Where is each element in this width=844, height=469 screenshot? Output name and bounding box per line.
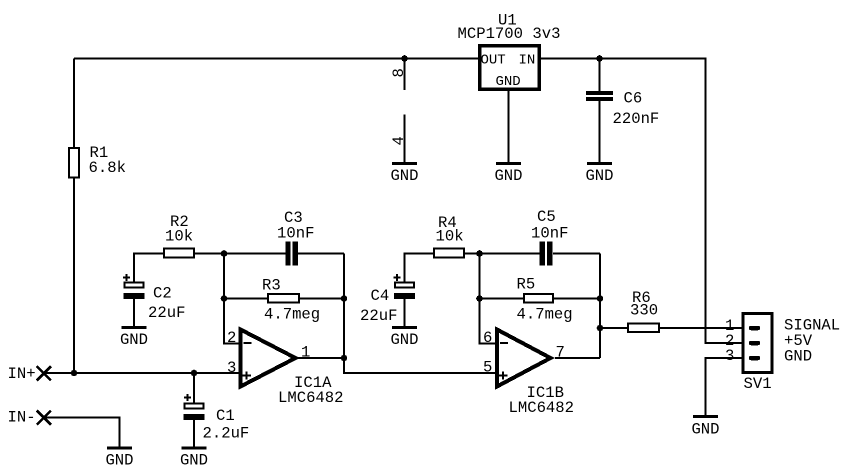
wire R2 right to C3 xyxy=(195,253,286,255)
wire C1 bottom lead to GND xyxy=(193,420,195,448)
svg-text:GND: GND xyxy=(784,348,812,366)
svg-text:MCP1700 3v3: MCP1700 3v3 xyxy=(458,25,561,43)
wire 3v3 rail top left (U1 OUT to left drop) xyxy=(74,58,478,60)
resistor R5 4.7meg xyxy=(517,276,573,324)
svg-text:10k: 10k xyxy=(436,228,464,246)
capacitor C1 2.2uF (polarized) xyxy=(184,394,250,443)
wire C4 bottom lead to GND xyxy=(404,299,406,328)
svg-text:220nF: 220nF xyxy=(613,110,660,128)
svg-text:LMC6482: LMC6482 xyxy=(509,399,575,417)
resistor R4 10k xyxy=(434,214,464,258)
svg-text:4: 4 xyxy=(390,136,408,145)
svg-text:4.7meg: 4.7meg xyxy=(517,306,573,324)
capacitor C6 220nF xyxy=(586,90,659,129)
wire IC1B output to column xyxy=(555,357,600,359)
capacitor C2 22uF (polarized) xyxy=(123,274,185,322)
connector SV1 xyxy=(725,314,772,394)
wire left drop R1 top xyxy=(73,59,75,148)
svg-text:8: 8 xyxy=(390,68,408,77)
ground under U1 pin4 xyxy=(390,164,418,186)
svg-text:GND: GND xyxy=(494,167,522,185)
wire IC1A output to node xyxy=(298,357,344,359)
wire R4 right to C5 xyxy=(465,253,540,255)
svg-text:C2: C2 xyxy=(153,285,172,303)
ground under C2 xyxy=(120,328,148,350)
svg-text:6: 6 xyxy=(483,329,492,347)
capacitor C3 10nF xyxy=(277,209,314,266)
svg-text:C1: C1 xyxy=(216,407,235,425)
resistor R6 330 xyxy=(628,289,659,332)
svg-text:C4: C4 xyxy=(371,287,390,305)
node R3 right junction xyxy=(341,295,348,302)
wire C3 right to feedback column xyxy=(298,253,344,255)
svg-text:IN-: IN- xyxy=(8,409,36,427)
svg-text:C6: C6 xyxy=(624,90,643,108)
svg-text:OUT: OUT xyxy=(481,53,506,69)
wire U1 GND pin stub xyxy=(508,91,510,164)
svg-text:GND: GND xyxy=(180,452,208,469)
wire R5 right xyxy=(554,298,600,300)
svg-text:10nF: 10nF xyxy=(531,225,568,243)
svg-text:LMC6482: LMC6482 xyxy=(278,389,344,407)
wire R6 right lead to SV1 pin1 xyxy=(660,327,742,329)
node R2/C3/col224 junction xyxy=(221,250,228,257)
svg-text:1: 1 xyxy=(301,344,310,362)
wire C2 bottom lead to GND xyxy=(133,299,135,328)
ground under U1 GND pin xyxy=(494,164,522,186)
wire feedback column x344 xyxy=(343,254,345,359)
wire U1 pin4 stub xyxy=(404,115,406,164)
ground under IN- xyxy=(105,448,133,469)
node IN+/C1 junction xyxy=(191,370,198,377)
node R4/C5/col479 junction xyxy=(476,250,483,257)
svg-text:2: 2 xyxy=(227,329,236,347)
wire IN- line to GND xyxy=(44,418,120,449)
ground under C6 xyxy=(585,164,613,186)
node R6/IC1B out junction xyxy=(597,325,604,332)
svg-text:2.2uF: 2.2uF xyxy=(203,425,250,443)
wire R3 right xyxy=(300,298,344,300)
node R5 right junction xyxy=(597,295,604,302)
wire R6 left lead xyxy=(600,327,627,329)
resistor R1 6.8k xyxy=(69,144,126,178)
wire SV1 pin3 to GND xyxy=(706,358,742,417)
wire R3 left xyxy=(224,298,267,300)
svg-text:330: 330 xyxy=(630,302,658,320)
capacitor C4 22uF (polarized) xyxy=(360,274,415,325)
svg-text:3: 3 xyxy=(227,359,236,377)
svg-text:GND: GND xyxy=(390,167,418,185)
svg-text:GND: GND xyxy=(691,421,719,439)
svg-text:GND: GND xyxy=(390,331,418,349)
wire IN+ line to IC1A pin3 xyxy=(44,372,241,374)
svg-text:6.8k: 6.8k xyxy=(89,159,126,177)
svg-text:R5: R5 xyxy=(517,276,536,294)
op-amp IC1B LMC6482 xyxy=(483,329,574,417)
op-amp IC1A LMC6482 xyxy=(227,329,344,407)
wire node column x224 to pin2 xyxy=(224,254,240,344)
wire C2 top lead and bend to R2 xyxy=(134,254,163,283)
op-amp U1 MCP1700 regulator box xyxy=(458,12,561,91)
svg-text:IN+: IN+ xyxy=(8,365,36,383)
node +5V/C6 junction xyxy=(596,55,603,62)
ground under SV1 pin3 xyxy=(691,417,719,439)
svg-text:GND: GND xyxy=(496,74,521,90)
svg-text:10nF: 10nF xyxy=(277,225,314,243)
svg-text:5: 5 xyxy=(483,359,492,377)
wire C6 bottom lead to GND xyxy=(599,101,601,164)
svg-text:4.7meg: 4.7meg xyxy=(264,306,320,324)
svg-text:3: 3 xyxy=(725,347,734,365)
node IN- terminal xyxy=(8,409,52,427)
ground under C4 xyxy=(390,328,418,350)
node R3 left junction xyxy=(221,295,228,302)
wire R1 bottom to IN+ node xyxy=(73,179,75,374)
svg-text:R3: R3 xyxy=(262,277,281,295)
resistor R2 10k xyxy=(164,213,194,258)
wire U1 pin8 stub xyxy=(404,59,406,91)
wire R5 left xyxy=(480,298,524,300)
ground under C1 xyxy=(180,448,208,469)
node IN+ terminal xyxy=(8,365,52,383)
wire C1 top lead xyxy=(193,373,195,404)
node IN+/R1 junction xyxy=(71,370,78,377)
resistor R3 4.7meg xyxy=(262,277,320,324)
wire feedback column x600 xyxy=(599,254,601,359)
wire C6 top lead xyxy=(599,59,601,92)
svg-text:22uF: 22uF xyxy=(360,307,397,325)
wire C4 top lead and bend to R4 xyxy=(405,254,434,283)
svg-text:22uF: 22uF xyxy=(148,304,185,322)
svg-text:GND: GND xyxy=(105,452,133,469)
svg-text:10k: 10k xyxy=(165,228,193,246)
wire C5 right to feedback column xyxy=(553,253,600,255)
node R5 left junction xyxy=(476,295,483,302)
svg-text:C5: C5 xyxy=(537,208,556,226)
svg-text:GND: GND xyxy=(120,331,148,349)
wire node column x479 to pin6 xyxy=(480,254,497,344)
node IC1A out junction xyxy=(341,355,348,362)
svg-text:7: 7 xyxy=(556,344,565,362)
svg-text:GND: GND xyxy=(585,167,613,185)
node 3v3/pin8 junction xyxy=(401,55,408,62)
wire +5V rail (U1 IN right, down right side to SV1 pin2) xyxy=(541,59,742,344)
svg-text:IN: IN xyxy=(519,53,536,69)
wire IC1A out down to IC1B pin5 xyxy=(344,358,496,373)
capacitor C5 10nF xyxy=(531,208,568,266)
svg-text:SV1: SV1 xyxy=(744,375,772,393)
